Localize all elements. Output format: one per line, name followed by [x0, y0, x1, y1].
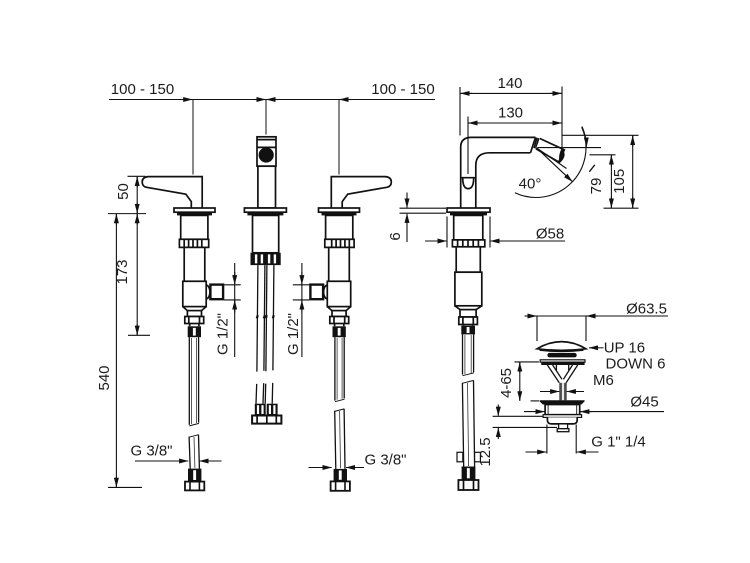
aerator end cap (dark): [559, 148, 565, 163]
shank taper: [455, 306, 482, 310]
spout shank upper: [456, 247, 480, 272]
dimension M6: [540, 391, 584, 393]
dimension 6 (deck flange thickness): [400, 193, 447, 243]
mounting ring (ribbed): [179, 239, 208, 247]
dimension 130: [468, 117, 562, 175]
outlet port G 1/2: [210, 285, 223, 300]
trumpet cone: [547, 365, 577, 383]
extension line at right valve centre: [338, 100, 340, 175]
column body above deck: [258, 166, 276, 208]
hex nut: [185, 317, 204, 324]
svg-text:G 3/8": G 3/8": [130, 443, 172, 460]
body-to-shank taper: [183, 307, 206, 311]
escutcheon flange (spout): [447, 208, 490, 212]
aerator axis ray at 40 deg: [537, 148, 573, 182]
handle cap (front): [257, 137, 276, 166]
hex nut (spout): [459, 317, 478, 325]
svg-text:G 1/2": G 1/2": [215, 313, 232, 355]
spout tube end cut: [531, 137, 536, 152]
spout hose upper run: [463, 334, 474, 375]
dimension 173 (body depth): [128, 214, 150, 336]
threaded rod M6: [560, 383, 566, 401]
right hose end crimp collar: [334, 469, 347, 482]
lever knob (front, filled): [259, 148, 273, 162]
svg-text:M6: M6: [593, 372, 614, 389]
dimension G 3/8 (left hose nut): [135, 460, 222, 462]
svg-text:540: 540: [96, 365, 113, 390]
aerator body (tilted): [536, 139, 564, 163]
twin hoses lower run: [256, 383, 273, 404]
left hose upper run: [188, 337, 190, 425]
valve body middle: [184, 247, 205, 281]
hose crimp collar (spout): [461, 326, 475, 335]
right hose lower run: [335, 409, 345, 412]
dimension 4-65 (deck thickness range): [515, 362, 540, 401]
dimension 50 (handle height): [128, 176, 146, 213]
aerator mid ray: [537, 148, 567, 169]
deck seal band (spout): [450, 212, 487, 215]
right hose end nut G 3/8: [331, 481, 350, 490]
dimension diameter 63.5: [525, 316, 669, 341]
dimension G 1/2 (right valve outlet): [293, 263, 310, 357]
svg-text:130: 130: [498, 105, 523, 122]
dimension 140: [460, 87, 562, 157]
twin hose crimp collars: [255, 404, 278, 416]
left hose end crimp collar: [188, 469, 201, 482]
left valve assembly (side view): [142, 177, 223, 338]
escutcheon flange (middle): [244, 208, 286, 212]
left hose end nut G 3/8: [185, 482, 204, 491]
waste cup: [547, 417, 577, 424]
dimension 12.5: [493, 405, 557, 440]
waste barrel: [545, 405, 580, 415]
svg-text:Ø45: Ø45: [630, 394, 658, 411]
valve block: [183, 281, 206, 306]
handle lever (left valve): [142, 177, 202, 208]
svg-text:Ø58: Ø58: [536, 226, 564, 243]
hose end nut (spout): [458, 480, 478, 490]
aerator joint rings: [534, 138, 539, 149]
dimension G 3/8 (right hose nut): [309, 467, 365, 469]
middle column (front view of valve): [244, 137, 286, 424]
waste lock ring: [543, 415, 582, 418]
dimension diameter 45: [524, 411, 664, 413]
waste / drain assembly: [537, 342, 586, 432]
spout tube outer profile: [461, 137, 536, 208]
right braided hose: [331, 337, 350, 491]
svg-text:105: 105: [611, 169, 628, 194]
spout swivel joint: [461, 178, 476, 189]
svg-text:DOWN 6: DOWN 6: [606, 356, 666, 373]
shank thread: [460, 310, 476, 317]
hose end crimp collar (spout): [462, 467, 476, 481]
dimension diameter 58: [425, 217, 565, 248]
spout assembly (side view): [447, 127, 601, 491]
spout hose lower run: [462, 380, 474, 466]
left braided hose: [185, 337, 204, 490]
svg-text:50: 50: [115, 183, 132, 200]
svg-text:79: 79: [588, 178, 605, 195]
svg-text:UP 16: UP 16: [604, 340, 645, 357]
spout body below deck: [454, 215, 483, 240]
arc arrow at horizontal ray: [582, 127, 587, 147]
waste top flange (diameter 45): [540, 400, 585, 402]
spout tube inner profile: [476, 153, 531, 208]
dimension 540 (hose length): [108, 214, 142, 488]
waste outlet stub: [559, 424, 568, 429]
right valve assembly (mirrored side view): [310, 177, 391, 338]
svg-text:4-65: 4-65: [498, 368, 515, 398]
upper flange: [540, 360, 585, 362]
dimension 79: [589, 155, 615, 208]
outlet cone: [206, 285, 210, 299]
valve body upper: [181, 215, 208, 239]
svg-text:G 1/2": G 1/2": [285, 313, 302, 355]
extension line at left valve centre: [192, 100, 194, 175]
deck seal band (middle): [247, 212, 283, 215]
hose side clips: [457, 452, 463, 462]
cap rim lower edge: [540, 350, 584, 351]
escutcheon flange: [174, 208, 215, 212]
svg-text:140: 140: [497, 75, 522, 92]
twin hoses upper run: [257, 265, 274, 372]
mounting ring (spout, ribbed): [452, 240, 484, 247]
svg-text:100 - 150: 100 - 150: [371, 81, 434, 98]
svg-text:G 1" 1/4: G 1" 1/4: [591, 434, 646, 451]
shank: [187, 311, 201, 317]
upper flange seal band (dark): [541, 362, 584, 365]
mounting ring (middle, ribbed dark): [251, 253, 281, 265]
dimension G 1/2 (left valve outlet): [224, 263, 241, 357]
left hose lower run: [189, 435, 199, 438]
spout shank lower block: [455, 272, 482, 306]
hose neck: [190, 324, 199, 327]
deck seal band: [177, 212, 212, 215]
svg-text:G 3/8": G 3/8": [364, 452, 406, 469]
body below deck (middle): [253, 215, 279, 252]
hose neck (spout): [464, 325, 473, 326]
leader UP 16: [589, 347, 604, 349]
dimension line top (100-150 spans): [109, 99, 435, 101]
svg-text:40°: 40°: [519, 176, 542, 193]
hose crimp collar: [188, 326, 201, 337]
extension line at deck level (left): [108, 213, 146, 215]
dimension G 1 inch 1/4: [526, 425, 599, 454]
dimension 105: [562, 135, 639, 208]
cap neck (dark): [547, 353, 576, 358]
svg-text:12.5: 12.5: [477, 437, 494, 466]
extension line at middle column centre: [265, 100, 267, 135]
aerator axis ray (horizontal position): [538, 147, 602, 149]
svg-text:100 - 150: 100 - 150: [111, 81, 174, 98]
twin hose end nut: [252, 416, 281, 424]
svg-text:Ø63.5: Ø63.5: [626, 301, 667, 318]
right hose upper run: [334, 337, 336, 400]
swivel arc (40 deg): [515, 127, 586, 197]
svg-text:6: 6: [387, 232, 404, 240]
push cap dome: [537, 342, 586, 351]
